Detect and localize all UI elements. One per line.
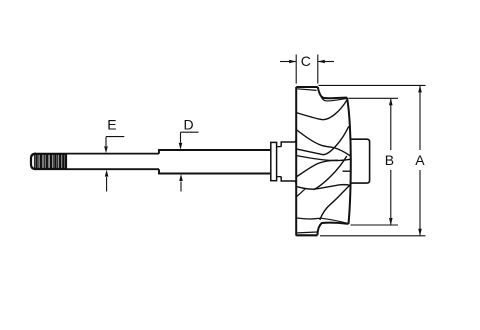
- blade curve 3: [296, 130, 350, 157]
- blade tip line bottom: [297, 231, 317, 234]
- A bottom arrowhead: [418, 229, 422, 236]
- svg-text:D: D: [184, 116, 194, 132]
- bottom edge: [296, 234, 317, 236]
- dimension A: [319, 85, 426, 235]
- ring groove: [277, 147, 282, 177]
- B dimension line: [390, 99, 392, 225]
- blade curve 9 (bottom sweep): [320, 185, 350, 220]
- E top arrowhead: [104, 146, 108, 153]
- svg-text:C: C: [301, 53, 311, 69]
- bottom contour: [317, 223, 348, 236]
- svg-text:B: B: [385, 152, 394, 168]
- C left extension line: [295, 55, 297, 84]
- journal shaft (larger diameter, dim D): [159, 150, 270, 174]
- blade curve 7 (wavy): [296, 185, 350, 190]
- top shroud contour: [318, 87, 347, 98]
- blade curve 2: [296, 100, 347, 119]
- dimension B: [349, 98, 399, 225]
- svg-text:E: E: [107, 116, 116, 132]
- thin shaft (stub section, dim E): [67, 154, 160, 170]
- C right arrow line: [318, 61, 334, 63]
- thread lines: [34, 154, 65, 169]
- top edge: [296, 86, 318, 88]
- A bottom extension line: [320, 235, 426, 237]
- dimension C: [280, 55, 334, 84]
- E bottom arrowhead: [105, 170, 109, 177]
- seal ring collar: [271, 142, 277, 180]
- B bottom extension line: [351, 224, 399, 226]
- blade curve 6 (sweep up): [296, 160, 338, 177]
- A dimension line: [419, 86, 421, 235]
- hub line segment near boss: [343, 170, 352, 172]
- blade curve 6b (steep sweep): [314, 156, 347, 190]
- blade curve 8: [297, 217, 322, 220]
- blade curve 5: [296, 156, 350, 161]
- A top arrowhead: [418, 85, 422, 92]
- threaded shaft end: [31, 154, 67, 170]
- dimension E leader: [106, 137, 124, 192]
- B bottom arrowhead: [389, 218, 393, 225]
- D top arrowhead: [179, 143, 183, 150]
- D bottom arrowhead: [179, 174, 183, 181]
- B top arrowhead: [389, 98, 393, 105]
- turbine wheel outline: [296, 87, 351, 236]
- back face: [295, 87, 297, 236]
- blade tip line top: [297, 89, 316, 91]
- C left arrowhead: [289, 60, 296, 64]
- exducer tip edge (right): [347, 98, 351, 224]
- blade thickness line (top blade): [319, 92, 347, 101]
- blade leading edge diagonal: [296, 189, 305, 197]
- blade curve 4 (rising): [296, 126, 349, 154]
- svg-text:A: A: [415, 152, 425, 168]
- blade thickness bottom: [322, 218, 348, 223]
- C left arrow line: [280, 61, 296, 63]
- C right arrowhead: [318, 60, 325, 64]
- dimension D leader: [181, 132, 199, 191]
- B top extension line: [349, 97, 399, 99]
- A top extension line: [319, 84, 426, 86]
- C right extension line: [317, 55, 319, 84]
- hub cylinder: [281, 140, 296, 184]
- nose boss: [351, 139, 370, 183]
